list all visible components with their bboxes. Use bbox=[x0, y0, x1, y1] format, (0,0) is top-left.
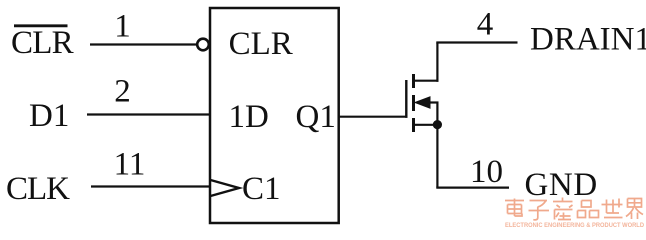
transistor Q body arrow bbox=[415, 97, 430, 108]
inversion bubble on CLR pin bbox=[197, 39, 209, 51]
transistor Q drain contact bbox=[412, 74, 415, 88]
transistor Q gate bar bbox=[405, 80, 407, 118]
watermark char chan bbox=[553, 198, 573, 220]
transistor Q source contact bbox=[412, 118, 415, 132]
wire source to GND bbox=[436, 187, 509, 189]
svg-text:1: 1 bbox=[114, 9, 131, 45]
wire CLK to box bbox=[91, 185, 210, 187]
net label /CLR overline bbox=[14, 24, 68, 27]
wire Q1 output to gate bbox=[338, 116, 408, 118]
watermark char jie bbox=[626, 199, 643, 220]
transistor Q body stub bbox=[429, 101, 439, 103]
svg-text:2: 2 bbox=[114, 74, 131, 110]
wire body-source rail down bbox=[436, 102, 438, 188]
svg-text:ELECTRONIC ENGINEERING & PRODU: ELECTRONIC ENGINEERING & PRODUCT WORLD bbox=[505, 222, 644, 229]
svg-text:10: 10 bbox=[470, 154, 503, 190]
svg-text:1D: 1D bbox=[229, 99, 269, 135]
transistor Q drain stub bbox=[415, 80, 439, 82]
svg-text:DRAIN1: DRAIN1 bbox=[530, 21, 646, 57]
svg-text:CLK: CLK bbox=[6, 171, 70, 207]
watermark char dian bbox=[505, 199, 524, 217]
svg-text:CLR: CLR bbox=[229, 26, 293, 62]
svg-text:4: 4 bbox=[477, 7, 494, 43]
junction dot source-body bbox=[433, 120, 442, 129]
watermark char zi bbox=[529, 201, 550, 220]
svg-text:D1: D1 bbox=[29, 98, 69, 134]
wire drain to DRAIN1 bbox=[436, 41, 517, 43]
transistor Q source stub bbox=[415, 124, 438, 126]
flip-flop U1 body bbox=[210, 8, 339, 223]
svg-text:C1: C1 bbox=[242, 171, 281, 207]
watermark char shi bbox=[602, 199, 623, 218]
svg-text:Q1: Q1 bbox=[296, 99, 336, 135]
svg-text:CLR: CLR bbox=[11, 25, 74, 61]
wire drain rail up bbox=[436, 43, 438, 82]
transistor Q body contact bbox=[412, 95, 415, 111]
wire D1 to box bbox=[87, 113, 210, 115]
wire CLR to bubble bbox=[90, 43, 197, 45]
watermark char pin bbox=[578, 201, 599, 218]
watermark logo chinese characters bbox=[505, 198, 643, 220]
svg-text:11: 11 bbox=[114, 146, 146, 182]
clock triangle on C1 pin bbox=[211, 180, 240, 196]
svg-text:GND: GND bbox=[525, 167, 598, 203]
